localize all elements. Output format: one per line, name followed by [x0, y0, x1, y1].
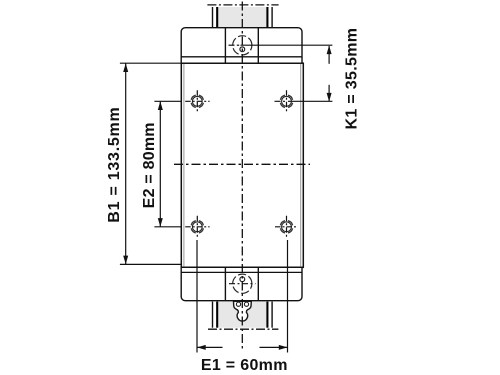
- E1 right extension line: [287, 240, 289, 353]
- end cap top grease hole dashed circle: [233, 36, 252, 55]
- E1 arrow left: [197, 345, 206, 350]
- end cap top crosshair dash left of K1 extension: [229, 44, 235, 46]
- E2 arrow down: [158, 218, 163, 227]
- B1 top extension line: [120, 62, 181, 64]
- K1 arrow down: [327, 93, 332, 102]
- end cap bottom outline: [181, 267, 302, 300]
- K1 top extension line (through cap circle to right): [241, 44, 333, 46]
- body inner chamfer line right (gray): [300, 63, 302, 267]
- B1 arrow down: [123, 256, 128, 265]
- B1 dimension line: [125, 63, 127, 264]
- E1 arrow right: [279, 345, 288, 350]
- rail bottom right outer edge line: [271, 302, 273, 328]
- rail top left thick edge line: [216, 7, 218, 28]
- vertical centerline (dash-dot): [241, 2, 243, 351]
- K1 dimension line upper segment: [328, 46, 330, 64]
- mounting hole top-left: [185, 90, 209, 112]
- rail bottom left outer edge line: [212, 302, 214, 328]
- E2 arrow up: [158, 101, 163, 110]
- grease nipple inner small circles: [236, 302, 240, 306]
- end cap top center square right vertical: [257, 28, 259, 64]
- horizontal centerline (dash-dot): [174, 163, 310, 165]
- K1 arrow up: [327, 45, 332, 54]
- mounting hole top-right: [275, 90, 293, 112]
- rail bottom right thick edge line: [266, 302, 268, 328]
- end cap bottom grease hole dashed circle: [233, 274, 252, 293]
- end cap top inner horizontal line: [181, 56, 302, 58]
- B1 arrow up: [123, 63, 128, 72]
- rail bottom gray fill: [219, 301, 267, 328]
- end cap top center square left vertical: [224, 28, 226, 64]
- E2 bottom extension line: [154, 226, 181, 228]
- end cap bottom center square left vertical: [224, 267, 226, 300]
- E1 dimension line left segment: [198, 346, 223, 348]
- E1 left extension line: [196, 240, 198, 353]
- B1 bottom extension line: [120, 263, 181, 265]
- rail top right outer edge line: [271, 7, 273, 28]
- rail top left outer edge line: [212, 7, 214, 28]
- svg-text:K1 = 35.5mm: K1 = 35.5mm: [343, 28, 360, 130]
- body inner chamfer line left (gray): [183, 63, 185, 267]
- end cap top outline: [181, 28, 302, 64]
- rail top right thick edge line: [266, 7, 268, 28]
- svg-text:E1 = 60mm: E1 = 60mm: [201, 357, 288, 374]
- rail bottom horizontal centerline (dash-dot): [208, 328, 278, 330]
- E1 dimension line right segment: [260, 346, 288, 348]
- end cap bottom center square right vertical: [257, 267, 259, 300]
- svg-text:E2 = 80mm: E2 = 80mm: [141, 122, 158, 208]
- end cap bottom crosshair horizontal dash-dot: [229, 283, 256, 285]
- rail top horizontal centerline (dash-dot): [207, 4, 278, 6]
- E2 top extension line: [154, 100, 181, 102]
- carriage body outline: [181, 63, 303, 267]
- end cap bottom inner horizontal line: [181, 271, 302, 273]
- svg-text:B1 = 133.5mm: B1 = 133.5mm: [106, 107, 123, 223]
- end cap bottom grease hole small circle: [240, 277, 245, 282]
- rail top gray fill: [219, 7, 267, 28]
- end cap top grease hole small circle: [240, 47, 245, 52]
- K1 bottom extension line (from top-right hole to right): [288, 100, 332, 102]
- K1 dimension line lower segment: [328, 85, 330, 101]
- mounting hole bottom-right: [275, 216, 298, 238]
- rail bottom left thick edge line: [216, 302, 218, 328]
- mounting hole bottom-left: [185, 216, 209, 238]
- E2 dimension line: [159, 101, 161, 227]
- grease nipple cutout on bottom rail: [234, 301, 252, 321]
